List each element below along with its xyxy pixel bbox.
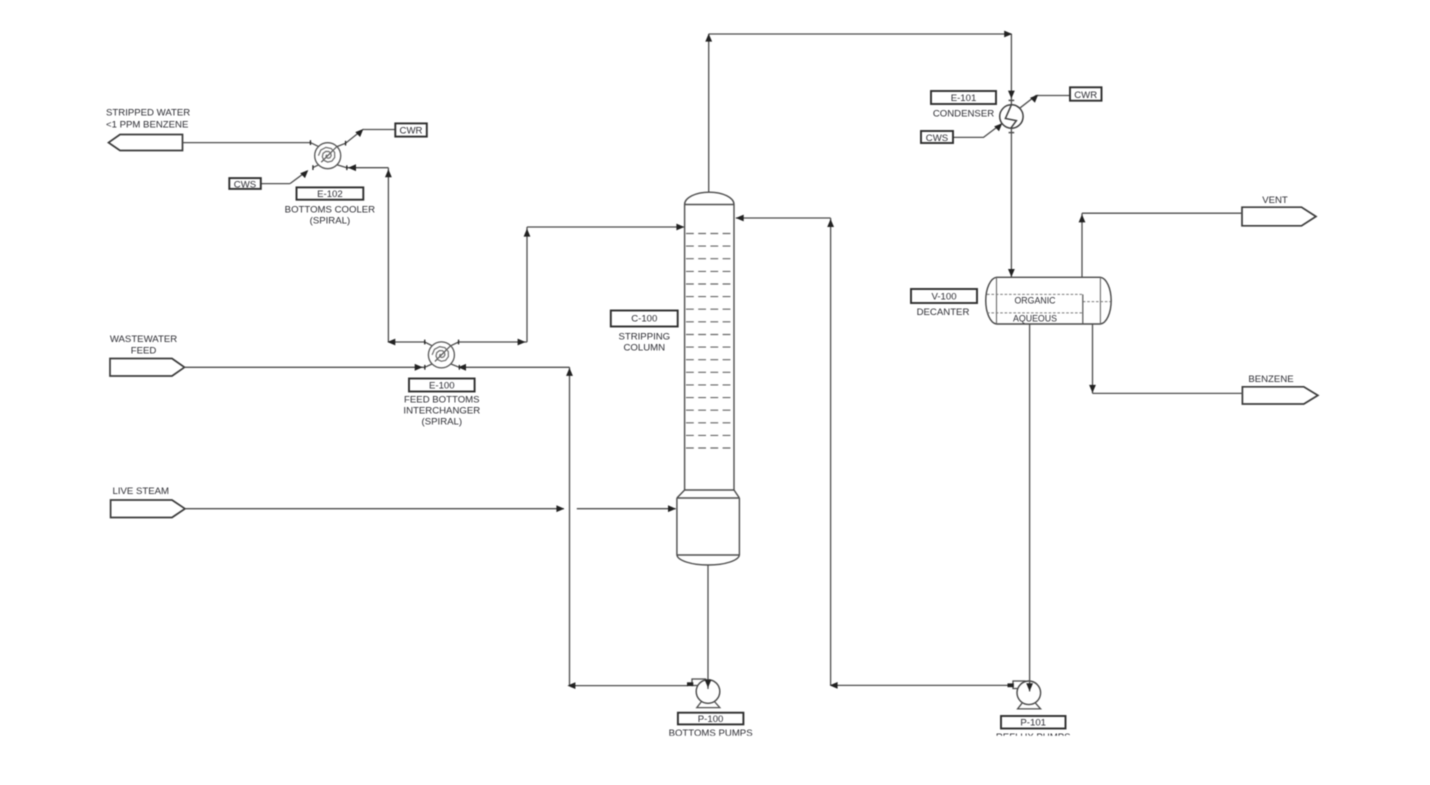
arrowhead P-100 suction (down) xyxy=(705,680,712,688)
svg-text:STRIPPED WATER: STRIPPED WATER xyxy=(106,108,190,119)
wire wastewater feed line xyxy=(185,366,425,368)
wire live steam line right segment xyxy=(577,508,676,510)
wire overhead top run xyxy=(709,33,1012,35)
column top dome xyxy=(685,192,734,204)
stream flag WASTEWATER FEED (points right) xyxy=(110,359,185,377)
arrowhead overhead riser up xyxy=(705,34,712,42)
arrowhead reflux into column (left) xyxy=(736,215,744,222)
tick below condenser xyxy=(1009,132,1015,134)
wire P-100 discharge to riser xyxy=(570,685,689,687)
svg-text:V-100: V-100 xyxy=(931,291,956,302)
vessel right tangent line xyxy=(1099,277,1101,324)
wire benzene outlet down xyxy=(1092,324,1094,393)
sump flare right xyxy=(734,490,739,498)
wire E-102 NW stub xyxy=(310,143,318,147)
label box E-100 xyxy=(409,379,475,392)
wire E-100 NE stub xyxy=(451,342,459,346)
sump left wall xyxy=(676,498,678,555)
wire E-100 SW stub xyxy=(425,364,432,367)
arrow tick E-100 NW xyxy=(424,340,425,345)
wire overhead vapor riser xyxy=(708,34,710,192)
wire CWS diagonal to E-102 xyxy=(290,171,307,183)
svg-text:WASTEWATER: WASTEWATER xyxy=(110,334,177,345)
arrowhead E-100 top-right (points right) xyxy=(518,339,526,346)
pump casing block xyxy=(692,679,706,686)
stripping column C-100 xyxy=(677,192,740,565)
svg-text:P-101: P-101 xyxy=(1020,718,1046,729)
wire riser E-100 to column feed xyxy=(526,227,528,342)
arrowhead benzene corner (down) xyxy=(1089,385,1096,393)
arrow tick E-102 NE xyxy=(345,141,346,146)
svg-text:DECANTER: DECANTER xyxy=(917,307,970,318)
arrow tick E-100 NE xyxy=(458,340,459,345)
arrowhead bottoms into E-102 (left) xyxy=(348,164,356,171)
sump bottom weld line xyxy=(677,554,740,556)
column trays (dashed) xyxy=(686,234,733,449)
arrowhead reflux riser up xyxy=(827,219,834,227)
wire stripped water: E-102 to flag xyxy=(183,142,311,144)
organic liquid level (wavy) xyxy=(987,293,1083,295)
arrowhead riser up at E-100 corner xyxy=(566,368,573,376)
wire CWR line to box xyxy=(363,129,396,131)
svg-text:CWR: CWR xyxy=(400,126,423,137)
wire P-101 discharge to riser xyxy=(831,684,1009,686)
wire P-101 suction overlay xyxy=(1029,681,1031,692)
sump top line xyxy=(677,497,740,499)
arrowhead bottoms into pump (down) xyxy=(705,680,712,688)
arrowhead CWS into condenser (NE) xyxy=(994,123,1002,131)
svg-text:COLUMN: COLUMN xyxy=(624,343,666,354)
svg-text:CONDENSER: CONDENSER xyxy=(933,109,994,120)
wire E-100 SE stub xyxy=(451,364,460,367)
wire E-100 top-left horizontal xyxy=(388,341,424,343)
arrowhead P-101 discharge at riser (left) xyxy=(830,682,838,689)
label box CWR (E-102) xyxy=(395,123,427,136)
wire bottoms line into E-100 xyxy=(459,366,569,368)
label box C-100 xyxy=(611,311,678,327)
wire condenser to CWR xyxy=(1020,96,1070,109)
column shell right wall xyxy=(733,205,735,491)
pump P-101 (reflux) xyxy=(831,681,1041,709)
svg-text:E-101: E-101 xyxy=(951,93,977,104)
condenser tube zigzag xyxy=(1005,105,1016,128)
arrowhead steam into column sump (points right) xyxy=(668,505,676,512)
wire E-100 top-right horizontal xyxy=(459,341,527,343)
label box P-100 xyxy=(678,713,744,725)
svg-text:FEED BOTTOMS: FEED BOTTOMS xyxy=(404,395,480,406)
arrowhead riser up to column feed corner xyxy=(524,229,531,237)
label box CWR (E-101) xyxy=(1070,87,1102,100)
label box E-102 xyxy=(297,187,364,199)
svg-text:VENT: VENT xyxy=(1262,195,1288,206)
arrowhead vent riser up xyxy=(1079,214,1086,222)
level right of weir (wavy) xyxy=(1083,301,1111,303)
wire reflux riser xyxy=(830,218,832,685)
stream flag VENT (points right) xyxy=(1242,207,1316,226)
svg-text:BENZENE: BENZENE xyxy=(1248,374,1293,385)
svg-text:ORGANIC: ORGANIC xyxy=(1014,296,1056,306)
wire live steam line left segment xyxy=(185,508,564,510)
arrowhead feed into column (points right) xyxy=(676,224,684,231)
sump right wall xyxy=(738,498,740,555)
pump circle xyxy=(696,680,720,704)
column bottom transition line xyxy=(685,489,734,491)
svg-text:BOTTOMS COOLER: BOTTOMS COOLER xyxy=(285,205,376,216)
pump circle xyxy=(1017,681,1041,705)
arrowhead E-100 top-left (points left) xyxy=(387,339,395,346)
wire E-102 SW stub xyxy=(313,165,319,168)
label box CWS (E-102) xyxy=(229,178,260,189)
wire vent run to flag xyxy=(1082,212,1242,214)
wire E-102 SE stub xyxy=(337,165,347,168)
tick above condenser xyxy=(1009,99,1015,101)
arrowhead steam mid (points right) xyxy=(556,505,564,512)
wire bottoms to E-102 (horizontal) xyxy=(347,167,389,169)
svg-text:REFLUX PUMPS: REFLUX PUMPS xyxy=(996,732,1071,743)
wire E-102 NE stub to CWR diagonal xyxy=(337,130,362,146)
label box CWS (E-101) xyxy=(921,131,953,143)
svg-text:(SPIRAL): (SPIRAL) xyxy=(310,216,351,227)
stream flag STRIPPED WATER (points left) xyxy=(109,135,183,151)
heat exchanger E-100 (spiral) xyxy=(428,342,454,368)
svg-text:P-100: P-100 xyxy=(698,714,724,725)
arrowhead riser up at E-102 corner xyxy=(385,169,392,177)
wire riser E-100 to E-102 xyxy=(387,168,389,342)
svg-text:(SPIRAL): (SPIRAL) xyxy=(422,417,463,428)
pump P-101 discharge nozzle xyxy=(1008,683,1014,687)
arrowhead CWR out of E-102 (NE) xyxy=(355,129,363,137)
svg-text:FEED: FEED xyxy=(131,346,157,357)
svg-text:INTERCHANGER: INTERCHANGER xyxy=(403,406,480,417)
arrowhead bottoms into E-100 (points left) xyxy=(458,364,466,371)
wire condenser outlet down xyxy=(1010,128,1012,277)
arrowhead condensate into decanter (down) xyxy=(1008,269,1015,277)
svg-text:C-100: C-100 xyxy=(631,314,657,325)
label box V-100 xyxy=(911,289,977,303)
vessel shell xyxy=(986,277,1111,324)
arrow tick E-102 SW xyxy=(312,165,313,170)
stream flag BENZENE (points right) xyxy=(1242,387,1318,404)
svg-text:CWR: CWR xyxy=(1074,90,1097,101)
wire benzene run to flag xyxy=(1093,392,1243,394)
arrowhead P-101 suction (down) xyxy=(1026,683,1033,691)
arrow tick E-102 SE xyxy=(346,165,347,170)
pump base xyxy=(697,702,720,708)
sump bottom head xyxy=(677,555,740,565)
arrowhead CWS into E-102 (NE) xyxy=(300,170,308,178)
condenser shell circle xyxy=(1000,105,1023,128)
label box P-101 xyxy=(1001,716,1066,729)
condenser E-101 xyxy=(953,96,1070,278)
arrowhead P-100 discharge at riser (left) xyxy=(567,682,575,689)
svg-text:AQUEOUS: AQUEOUS xyxy=(1013,314,1057,324)
wire overhead down to condenser xyxy=(1010,34,1012,105)
wire CWS line from box xyxy=(261,183,290,185)
vessel left tangent line xyxy=(996,277,998,324)
pump P-100 discharge nozzle xyxy=(687,682,693,686)
wire CWS to condenser xyxy=(953,124,1001,137)
aqueous interface level (wavy) xyxy=(987,312,1083,314)
pump casing block xyxy=(1013,681,1025,689)
wire E-100 NW stub xyxy=(425,342,433,346)
decanter V-100 xyxy=(986,213,1243,689)
arrowhead condenser to CWR (NE) xyxy=(1030,95,1038,103)
wire riser P-100 to E-100 xyxy=(569,367,571,685)
weir plate xyxy=(1082,294,1084,324)
column shell left wall xyxy=(684,205,686,491)
wire P-100 suction overlay xyxy=(707,679,709,689)
arrow tick E-100 SW xyxy=(424,365,425,370)
wire column bottoms outlet xyxy=(707,565,709,689)
wire aqueous outlet to P-101 xyxy=(1029,324,1031,690)
arrowhead overhead right at corner xyxy=(1004,31,1012,38)
svg-text:<1 PPM BENZENE: <1 PPM BENZENE xyxy=(106,120,188,131)
wire vent riser xyxy=(1081,213,1083,277)
arrowhead aqueous into pump (down) xyxy=(1026,683,1033,691)
arrow small tick E-102 west xyxy=(310,140,311,145)
arrowhead into condenser (down) xyxy=(1008,91,1015,99)
arrow tick E-100 SE xyxy=(459,365,460,370)
label box E-101 xyxy=(931,91,996,104)
svg-text:E-102: E-102 xyxy=(317,189,343,200)
svg-text:BOTTOMS PUMPS: BOTTOMS PUMPS xyxy=(669,728,753,739)
heat exchanger E-102 (spiral) xyxy=(315,143,341,169)
sump flare left xyxy=(677,490,685,498)
wire reflux return to column xyxy=(736,217,831,219)
stream flag LIVE STEAM (points right) xyxy=(111,500,185,518)
arrowhead feed into E-100 (points right) xyxy=(415,364,423,371)
pump P-100 (bottoms) xyxy=(570,679,720,708)
column top weld line xyxy=(685,204,734,206)
svg-text:STRIPPING: STRIPPING xyxy=(618,332,670,343)
wire feed top line to column xyxy=(527,226,684,228)
svg-text:E-100: E-100 xyxy=(429,380,455,391)
svg-text:CWS: CWS xyxy=(234,179,256,190)
svg-text:CWS: CWS xyxy=(926,133,948,144)
svg-text:LIVE STEAM: LIVE STEAM xyxy=(113,486,170,497)
pump base xyxy=(1018,703,1041,709)
